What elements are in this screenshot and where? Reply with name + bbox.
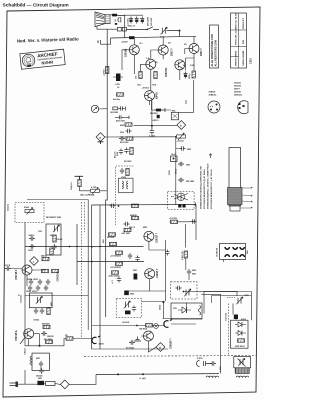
- junction dot: [39, 345, 41, 347]
- fuse F2: [122, 27, 126, 31]
- svg-text:S: S: [115, 19, 117, 23]
- wires Q12: [141, 336, 156, 352]
- svg-text:10n3: 10n3: [171, 154, 175, 156]
- svg-text:100µ 10: 100µ 10: [71, 182, 73, 190]
- jack socket symbol: [118, 17, 121, 23]
- svg-text:SPANNUNGSABFALL GEGEN ⊥ BEIMET: SPANNUNGSABFALL GEGEN ⊥ BEIMETRICH: [207, 163, 210, 209]
- electrolytic C3a: [140, 17, 144, 24]
- resistor R26b: [132, 204, 139, 207]
- capacitor C16: [178, 162, 184, 166]
- capacitor C8: [119, 149, 123, 155]
- resistor R4 220: [106, 67, 109, 74]
- svg-text:2SB186: 2SB186: [234, 92, 241, 94]
- svg-text:1Ω9: 1Ω9: [173, 308, 177, 310]
- svg-text:2k7Ω3Ω: 2k7Ω3Ω: [107, 237, 115, 239]
- capacitor C33: [39, 368, 43, 374]
- junction: [183, 291, 185, 293]
- svg-text:C2ΩΩA: C2ΩΩA: [20, 295, 23, 303]
- capacitor C37: [210, 361, 216, 365]
- svg-text:SPANNUNGEN GEGEN (1) GEMESSEN.: SPANNUNGEN GEGEN (1) GEMESSEN. BEI: [200, 166, 203, 209]
- svg-text:MΩ2: MΩ2: [143, 227, 147, 229]
- cap at x167: [165, 250, 169, 256]
- svg-text:MW: MW: [247, 250, 249, 254]
- AGC box: [46, 224, 61, 255]
- svg-text:C52,7Ω9: C52,7Ω9: [226, 312, 228, 321]
- svg-text:ΩΩ2: ΩΩ2: [245, 295, 249, 297]
- svg-text:TRA: TRA: [172, 110, 177, 113]
- wires right rail bottom: [184, 275, 238, 374]
- junction on left vertical: [151, 125, 153, 127]
- capacitor C10: [120, 168, 124, 174]
- MW coil box hatched: [235, 368, 249, 374]
- capacitor C25b: [135, 256, 139, 262]
- svg-text:1ΩΩ3: 1ΩΩ3: [28, 250, 33, 252]
- transistor Q1 2SB186: [129, 45, 139, 55]
- note box: ALLE WIDERSTANDE 1/8W: [210, 25, 219, 68]
- wire lower left: [25, 200, 88, 331]
- IF transformer T1: [171, 156, 178, 162]
- node diamond D5: [60, 380, 69, 389]
- svg-text:MΩ1: MΩ1: [192, 274, 196, 276]
- fuse blob on bus: [129, 36, 135, 39]
- loudspeaker LS: [95, 12, 110, 27]
- svg-text:L,3Ω5: L,3Ω5: [220, 366, 222, 372]
- svg-text:K1Ω5,2Ω: K1Ω5,2Ω: [182, 251, 184, 260]
- resistor R1: [139, 72, 142, 79]
- coil squiggle left of box: [30, 356, 32, 365]
- svg-text:MΩ3: MΩ3: [187, 149, 191, 151]
- tuned circuit box: [29, 293, 52, 308]
- resistor R33: [146, 324, 153, 327]
- resistor R30: [46, 340, 53, 343]
- fuse F1: [117, 27, 121, 31]
- svg-text:MΩ1: MΩ1: [38, 378, 42, 380]
- svg-text:C59Ω8F 7: C59Ω8F 7: [171, 338, 173, 349]
- svg-text:MΩ1: MΩ1: [133, 270, 137, 272]
- svg-text:A2Ω3: A2Ω3: [241, 318, 246, 321]
- transistor Q8: [22, 265, 32, 275]
- svg-text:Ω5Ω3: Ω5Ω3: [160, 305, 162, 310]
- svg-text:45kΩ3: 45kΩ3: [41, 255, 47, 258]
- resistor R24: [116, 262, 123, 265]
- capacitor C22b: [28, 285, 32, 291]
- resistor R20c: [132, 216, 139, 219]
- blob caps pair: [178, 204, 181, 208]
- resistor R18: [42, 269, 49, 272]
- svg-text:1883: 1883: [186, 165, 190, 167]
- svg-text:470kΩ3: 470kΩ3: [56, 238, 63, 241]
- transistor pinout case P1: [208, 92, 220, 114]
- wire Q8: [11, 269, 45, 287]
- capacitor C31: [41, 331, 47, 335]
- emitter diagonal: [20, 334, 40, 346]
- capacitor C18: [52, 244, 56, 250]
- svg-text:+1 дΩ): +1 дΩ): [139, 378, 146, 380]
- diode D6: [178, 307, 191, 313]
- svg-text:+9Ω1A: +9Ω1A: [24, 348, 27, 355]
- svg-text:UQ7+4,2MΩ(2): UQ7+4,2MΩ(2): [80, 194, 95, 197]
- capacitor C34: [134, 337, 141, 342]
- svg-text:70Ω: 70Ω: [137, 85, 141, 87]
- junction blob: [115, 23, 117, 25]
- svg-text:+MΩ16: +MΩ16: [28, 235, 34, 237]
- black box MC: [37, 381, 44, 385]
- svg-text:PW/LW KT: PW/LW KT: [243, 17, 245, 29]
- svg-text:MΩ3: MΩ3: [51, 302, 53, 306]
- MW trimmer box: [234, 357, 251, 368]
- dashed control box: [15, 203, 44, 223]
- transistor pinout case P2: [234, 82, 248, 114]
- svg-text:F ΩΩ1: F ΩΩ1: [197, 358, 203, 360]
- capacitor C29: [187, 269, 191, 275]
- collector stubs: [134, 36, 194, 105]
- capacitor C5: [119, 106, 125, 110]
- cap rail: [125, 14, 143, 16]
- box B: [171, 303, 202, 319]
- svg-text:2ΩΩV: 2ΩΩV: [99, 344, 105, 346]
- black cap C27: [124, 291, 129, 296]
- wave band table: [231, 12, 247, 68]
- junction: [118, 205, 120, 207]
- cap in box A: [132, 306, 136, 312]
- wire w/ C hook: [66, 338, 93, 340]
- connector block K1: [217, 244, 250, 263]
- +9V bus: [111, 36, 197, 38]
- wire from D1: [105, 136, 176, 138]
- svg-text:D952 V: D952 V: [172, 48, 174, 56]
- svg-text:C59019 F: C59019 F: [58, 271, 60, 282]
- capacitor C30: [34, 308, 38, 314]
- black cap C14: [157, 115, 160, 118]
- wire chain to D2: [134, 124, 177, 126]
- svg-text:40Ω 1883: 40Ω 1883: [116, 120, 126, 123]
- capacitor C14b: [150, 129, 154, 135]
- node diamond D2: [177, 121, 186, 130]
- black blob: [125, 311, 131, 315]
- bottom row: plug P: [10, 382, 22, 388]
- main left bus: [106, 29, 108, 317]
- svg-text:Ω5ΩΩ3: Ω5ΩΩ3: [47, 336, 54, 338]
- svg-text:+ΩΩ2 ΩΩΩ3: +ΩΩ2 ΩΩΩ3: [108, 276, 119, 278]
- section divider dashed: [84, 355, 256, 358]
- svg-text:RUN 521 TILOF: RUN 521 TILOF: [236, 12, 238, 29]
- left small resistor on wire: [66, 337, 73, 340]
- capacitor C20c: [124, 222, 130, 226]
- wires bottom left: [22, 300, 97, 384]
- potentiometer VR1: [91, 187, 100, 194]
- trimmer cap in box: [36, 296, 43, 303]
- resistor R3 6,8/0,5W: [192, 71, 195, 78]
- bottom long bus: [96, 373, 219, 376]
- osc section dashed box: [171, 282, 197, 299]
- svg-text:2SB186: 2SB186: [126, 48, 128, 57]
- electrolytic C4 horizontal black: [116, 74, 121, 82]
- svg-text:2SA156: 2SA156: [234, 82, 241, 85]
- capacitor C22: [29, 279, 33, 285]
- svg-text:2SA155: 2SA155: [234, 85, 241, 88]
- D1 bottom bar: [98, 142, 104, 144]
- headphone jack circle J1: [91, 105, 107, 112]
- wire y346: [29, 334, 66, 346]
- svg-text:2SB205L: 2SB205L: [166, 67, 168, 77]
- oscillator box: [32, 353, 49, 370]
- resistor R10: [126, 169, 129, 176]
- electrolytic C3: [184, 72, 188, 79]
- transformer T2 box: [171, 112, 178, 120]
- svg-text:MΩ7: MΩ7: [50, 235, 54, 237]
- capacitor C17: [178, 178, 184, 182]
- svg-text:1000µ: 1000µ: [189, 74, 191, 79]
- junction dots: [76, 246, 78, 248]
- svg-text:C263: C263: [250, 58, 253, 64]
- svg-text:MS MΩ3: MS MΩ3: [150, 113, 158, 115]
- svg-text:4,13 B: 4,13 B: [5, 264, 11, 267]
- svg-text:MΩ1: MΩ1: [36, 358, 40, 360]
- mixer transistor Q13: [171, 193, 188, 201]
- svg-text:+4,7kΩa: +4,7kΩa: [177, 139, 185, 142]
- svg-text:C5905F 7: C5905F 7: [157, 232, 159, 243]
- resistor R29: [43, 325, 50, 328]
- capacitor C9: [124, 148, 128, 154]
- oscillator dashed box: [168, 192, 195, 210]
- svg-text:2ΩΩ4 1ΩΩ3: 2ΩΩ4 1ΩΩ3: [27, 278, 38, 281]
- svg-text:4x100µ: 4x100µ: [113, 98, 121, 101]
- svg-text:ALL RESISTORS 1/8W: ALL RESISTORS 1/8W: [215, 39, 218, 66]
- svg-text:100µ 10: 100µ 10: [128, 26, 135, 28]
- wire row y325: [92, 324, 196, 326]
- node diamond D1: [96, 133, 105, 142]
- dashed wire: [116, 165, 134, 167]
- svg-text:4Ω 1883: 4Ω 1883: [124, 160, 131, 163]
- wire y110: [152, 101, 172, 111]
- earphone jack (black): [112, 14, 117, 17]
- ferrite rod antenna: [228, 148, 253, 212]
- svg-text:2SB205L: 2SB205L: [209, 95, 218, 97]
- svg-text:9ΩΩ 2Ω1Ω: 9ΩΩ 2Ω1Ω: [235, 346, 245, 348]
- svg-text:1ΩΩ,Ω: 1ΩΩ,Ω: [8, 204, 10, 211]
- IF can box: [119, 178, 134, 193]
- svg-text:2SB186: 2SB186: [209, 92, 216, 94]
- transistor Q10: [145, 269, 155, 279]
- node diamond D3: [30, 257, 39, 266]
- volume pot VR3: [25, 208, 34, 215]
- svg-text:2ΩΩ: 2ΩΩ: [117, 151, 119, 156]
- svg-text:VOLTAGES MEASURED TO ⊥ AT 960: VOLTAGES MEASURED TO ⊥ AT 960 Hz: [210, 169, 213, 209]
- coil bumps right group: [236, 376, 249, 377]
- transistor Q5: [175, 60, 185, 70]
- border frame: [3, 7, 260, 397]
- vertical wire center: [176, 137, 180, 205]
- potentiometer VR2 4,7k: [177, 133, 186, 140]
- svg-text:PWT LTW + D.S.: PWT LTW + D.S.: [236, 28, 238, 45]
- capacitor C23b: [36, 285, 40, 291]
- transistor Q3: [189, 44, 199, 54]
- svg-text:2SB205L: 2SB205L: [234, 95, 243, 97]
- resistor R20: [109, 233, 116, 236]
- terminal circle a: [154, 324, 159, 329]
- squiggle in box B: [198, 306, 200, 316]
- resistor R31: [46, 382, 56, 386]
- measurement notes (rotated): [200, 163, 214, 209]
- capacitor C21 at border: [5, 266, 11, 270]
- diode D8: [235, 331, 246, 336]
- trimmer capacitor 40-9: [161, 27, 168, 34]
- svg-text:b: b: [180, 123, 182, 127]
- svg-text:50kΩ: 50kΩ: [24, 207, 29, 209]
- bottom long wire y349: [92, 348, 169, 350]
- capacitor C20: [29, 244, 35, 248]
- cap in osc box: [39, 361, 43, 367]
- wire speaker loop: [97, 15, 125, 38]
- svg-text:WEHTE SPRW: WEHTE SPRW: [236, 50, 238, 66]
- svg-text:6,8: 6,8: [183, 65, 186, 67]
- svg-text:+Ω 1Ω5V: +Ω 1Ω5V: [169, 218, 178, 220]
- nested box line: [212, 296, 252, 304]
- junction: [69, 246, 71, 248]
- trimmer in osc box: [236, 297, 243, 304]
- left vertical bus: [25, 223, 70, 301]
- svg-text:2SB77: 2SB77: [234, 89, 240, 91]
- resistor R5 4x100: [117, 93, 124, 96]
- capacitor C26b: [117, 277, 121, 283]
- dashed box center bottom: [116, 298, 142, 317]
- svg-text:MΩ2: MΩ2: [192, 270, 196, 272]
- cap pair below Q12: [129, 340, 135, 344]
- svg-text:GM MΩA: GM MΩA: [139, 328, 148, 331]
- IF section box: [70, 205, 196, 350]
- svg-text:MΩ2: MΩ2: [130, 294, 134, 296]
- svg-text:C19Ω5 7: C19Ω5 7: [157, 268, 159, 278]
- svg-text:0,5W: 0,5W: [190, 65, 195, 67]
- vertical into chain: [233, 304, 236, 321]
- trimmer in AGC box: [53, 225, 60, 232]
- capacitor C25: [128, 253, 132, 259]
- resistor R26: [171, 220, 178, 223]
- svg-text:+900Ω?: +900Ω?: [121, 42, 129, 44]
- resistor R23: [116, 251, 123, 254]
- R12 top bar: [75, 176, 84, 179]
- capacitor C23: [38, 279, 42, 285]
- cap in dashed box: [176, 286, 182, 290]
- resistor R25: [112, 271, 119, 274]
- wires Q9/Q10: [127, 236, 166, 301]
- wire to +rail, junction: [167, 31, 180, 37]
- svg-text:275A: 275A: [175, 169, 178, 174]
- svg-text:NFGERAT 1883: NFGERAT 1883: [46, 216, 62, 219]
- capacitor C19: [29, 236, 35, 240]
- hook clip 2: [92, 336, 100, 344]
- svg-text:OSZILLOGRAT: OSZILLOGRAT: [242, 50, 245, 66]
- resistor R16: [50, 248, 53, 255]
- dashed vertical: [228, 304, 230, 356]
- svg-text:Ω,1: Ω,1: [140, 43, 143, 45]
- wire pot row: [80, 187, 108, 191]
- coil in can: [122, 181, 128, 189]
- svg-text:Schaltbild — Circuit Diagram: Schaltbild — Circuit Diagram: [3, 2, 70, 8]
- svg-text:MW 1883: MW 1883: [186, 181, 194, 183]
- svg-text:63P61: 63P61: [157, 92, 159, 99]
- svg-text:+ΩΩ 1883: +ΩΩ 1883: [121, 233, 130, 235]
- svg-text:EIN-AUS: EIN-AUS: [147, 16, 150, 26]
- osc section outer box: [204, 292, 251, 321]
- capacitor C7: [126, 129, 132, 133]
- resistor R28: [47, 308, 50, 315]
- capacitor C7b: [119, 136, 125, 140]
- wires audio stage: [122, 49, 194, 91]
- svg-text:MS1883: MS1883: [111, 112, 119, 114]
- trimmer in dashed box: [184, 289, 191, 296]
- chain solid box: [231, 320, 249, 348]
- NVHR archive stamp: [20, 49, 65, 69]
- terminal bar: [195, 203, 196, 207]
- diode D7: [235, 322, 246, 327]
- MW variable cap: [238, 358, 245, 365]
- resistor R35: [238, 339, 245, 342]
- capacitor C15: [180, 146, 186, 150]
- arrow marker in notes: [209, 154, 211, 159]
- component MS1883: [113, 107, 118, 110]
- capacitor C30b: [40, 308, 44, 314]
- resistor R20d: [124, 228, 131, 231]
- svg-text:MΩ4Ω8: MΩ4Ω8: [130, 214, 137, 217]
- svg-text:C5901B E: C5901B E: [16, 330, 18, 341]
- svg-text:9,1883: 9,1883: [149, 136, 155, 138]
- capacitor C24: [46, 279, 50, 285]
- svg-text:4,7W: 4,7W: [91, 186, 96, 189]
- dashed band verticals: [82, 202, 85, 338]
- resistor R15: [53, 235, 56, 242]
- svg-text:GGGGD: GGGGD: [122, 322, 130, 324]
- stub wire: [101, 38, 111, 44]
- svg-text:ON-OFF: ON-OFF: [151, 17, 153, 26]
- resistor R17: [42, 257, 49, 260]
- wires box B: [142, 302, 202, 319]
- trimmer cap in dashed box: [124, 301, 131, 308]
- resistor R19: [52, 269, 59, 272]
- black cap C36: [234, 315, 238, 320]
- power switch S1: [126, 27, 159, 30]
- resistor R7: [125, 123, 132, 126]
- svg-text:+Ω1 8ΩΩ3Ω: +Ω1 8ΩΩ3Ω: [110, 256, 121, 258]
- junction blob: [162, 301, 164, 303]
- svg-text:D952 V: D952 V: [201, 48, 203, 56]
- capacitor C24b: [44, 285, 48, 291]
- transistor Q9: [144, 231, 154, 241]
- resistor R12 100u vertical: [78, 180, 81, 187]
- svg-text:+220Ω: +220Ω: [104, 69, 106, 76]
- resistor R27 vertical: [184, 251, 187, 258]
- svg-text:+9/18x3: +9/18x3: [142, 88, 150, 90]
- transistor Q12: [143, 331, 153, 341]
- wire from top right: [179, 80, 194, 112]
- transistor Q2: [158, 45, 168, 55]
- svg-text:+Ω7 8ΩΩ3Ω: +Ω7 8ΩΩ3Ω: [110, 267, 121, 269]
- svg-text:4ΩΩ: 4ΩΩ: [120, 124, 125, 127]
- resistor R8b: [126, 137, 133, 140]
- svg-text:BLY MΩ8: BLY MΩ8: [44, 339, 52, 341]
- capacitor C6 row2: [115, 115, 129, 119]
- svg-text:4Ω5: 4Ω5: [102, 239, 105, 243]
- svg-text:VOLTAGES MEASURED TO (1) AT 96: VOLTAGES MEASURED TO (1) AT 960Hz: [203, 169, 206, 209]
- svg-text:C5901B F: C5901B F: [16, 269, 18, 280]
- transistor Q6: [145, 91, 155, 101]
- component blob R13: [156, 109, 161, 112]
- small component F: [197, 358, 213, 367]
- transistor Q11: [24, 329, 34, 339]
- svg-text:4Ω3 1883: 4Ω3 1883: [120, 141, 128, 144]
- resistor R9: [130, 148, 133, 155]
- svg-text:OL881CM: OL881CM: [217, 247, 219, 257]
